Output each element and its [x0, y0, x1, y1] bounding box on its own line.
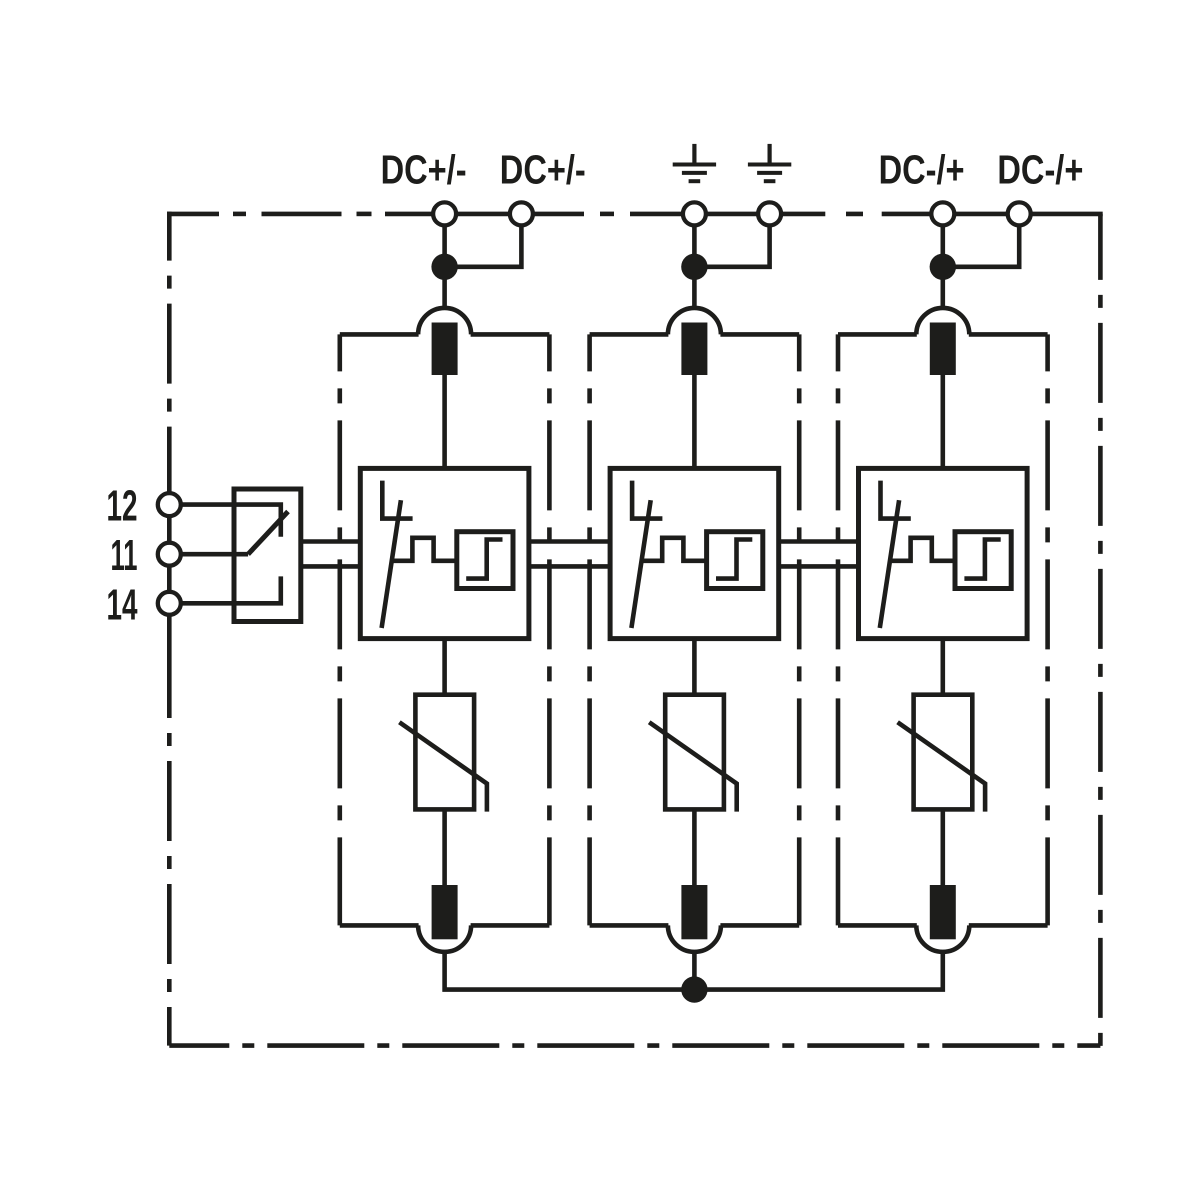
plug-in contact arc bottom, module 2	[668, 925, 721, 952]
trigger circuit box, module 2	[707, 532, 763, 589]
double signal lines module 2 to module 3	[779, 539, 859, 544]
plug-in contact blade (filled) bottom, module 1	[432, 885, 458, 939]
enclosure border bottom edge (dash-dot)	[169, 1043, 1100, 1048]
spark-gap with thermal disconnector symbol, module 1	[382, 481, 412, 519]
plug-in contact arc bottom, module 1	[418, 925, 471, 952]
junction node bottom bus	[681, 976, 707, 1002]
spark-gap with thermal disconnector symbol, module 2	[632, 481, 662, 519]
junction node module 3 top	[930, 254, 956, 280]
wire terminal 2b down to junction	[692, 214, 769, 267]
plug-in contact arc top, module 1	[418, 308, 471, 335]
svg-text:DC+/-: DC+/-	[381, 146, 467, 192]
zig-zag link to trigger box, module 1	[392, 538, 457, 561]
wire bottom contact to common bus module 2	[692, 950, 697, 990]
terminal 1b	[510, 202, 533, 225]
terminal 1a	[433, 202, 456, 225]
wire contact to SPD box module 2	[692, 375, 697, 466]
wire SPD box to varistor module 3	[940, 639, 945, 695]
plug-in contact blade (filled) bottom, module 2	[681, 885, 707, 939]
zig-zag link to trigger box, module 2	[642, 538, 707, 561]
wire terminal 2a down to top plug contact	[692, 214, 697, 310]
terminal 2a	[683, 202, 706, 225]
wire terminal 1b down to junction	[443, 214, 522, 267]
SPD unit box F3	[859, 468, 1028, 638]
varistor R1	[415, 695, 474, 810]
svg-text:DC-/+: DC-/+	[879, 146, 965, 192]
plug-in contact blade (filled) top, module 1	[432, 323, 458, 376]
wire terminal 3b down to junction	[941, 214, 1019, 267]
zig-zag link to trigger box, module 3	[890, 538, 955, 561]
plug-in contact blade (filled) top, module 3	[930, 323, 956, 376]
changeover switch blade	[248, 512, 288, 555]
svg-text:DC+/-: DC+/-	[500, 146, 586, 192]
svg-text:14: 14	[107, 580, 138, 629]
step (switching) symbol inside trigger box, module 2	[716, 540, 752, 579]
varistor R2	[665, 695, 724, 810]
trigger circuit box, module 1	[457, 532, 513, 589]
plug-in contact blade (filled) top, module 2	[681, 323, 707, 376]
double signal lines contact box to module 1	[301, 539, 361, 544]
terminal 12	[158, 493, 181, 516]
enclosure border top edge (dash-dot)	[167, 212, 219, 217]
wire terminal 3a down to top plug contact	[940, 214, 945, 310]
remote signalling changeover contact box	[234, 489, 301, 622]
enclosure border right edge (dash-dot)	[1098, 214, 1103, 1048]
terminal 3a	[931, 202, 954, 225]
trigger circuit box, module 3	[955, 532, 1011, 589]
plug-in contact blade (filled) bottom, module 3	[930, 885, 956, 939]
svg-text:11: 11	[111, 531, 138, 580]
step (switching) symbol inside trigger box, module 1	[466, 540, 502, 579]
wire terminal 12 into contact box + stationary throw	[169, 505, 280, 537]
junction node module 2 top	[681, 254, 707, 280]
spark-gap with thermal disconnector symbol, module 3	[881, 481, 911, 519]
wire varistor to bottom contact module 3	[940, 809, 945, 885]
SPD unit box F2	[610, 468, 779, 638]
plug-in contact arc top, module 2	[668, 308, 721, 335]
terminal 2b	[758, 202, 781, 225]
module 3 dashed outline	[836, 334, 841, 925]
wire varistor to bottom contact module 1	[442, 809, 447, 885]
wire terminal 11 (common) into contact box	[169, 552, 248, 557]
earth/ground symbol at x=694.4	[692, 144, 696, 165]
varistor R3	[914, 695, 973, 810]
plug-in contact arc bottom, module 3	[916, 925, 969, 952]
wire SPD box to varistor module 2	[692, 639, 697, 695]
wire terminal 14 into contact box + stationary throw	[169, 576, 280, 603]
common bottom bus wire	[445, 950, 943, 990]
terminal 3b	[1008, 202, 1031, 225]
junction node module 1 top	[431, 254, 457, 280]
terminal 11	[158, 543, 181, 566]
wire varistor to bottom contact module 2	[692, 809, 697, 885]
earth/ground symbol at x=769.6	[767, 144, 771, 165]
step (switching) symbol inside trigger box, module 3	[964, 540, 1000, 579]
double signal lines module 1 to module 2	[529, 539, 610, 544]
svg-text:12: 12	[107, 482, 138, 531]
module 2 dashed outline	[587, 334, 592, 925]
terminal 14	[158, 592, 181, 615]
svg-text:DC-/+: DC-/+	[997, 146, 1083, 192]
module 1 dashed outline	[337, 334, 342, 925]
wire contact to SPD box module 1	[442, 375, 447, 466]
wire contact to SPD box module 3	[940, 375, 945, 466]
wire SPD box to varistor module 1	[442, 639, 447, 695]
SPD unit box F1	[360, 468, 529, 638]
wire terminal 1a down to top plug contact	[442, 214, 447, 310]
plug-in contact arc top, module 3	[916, 308, 969, 335]
enclosure border left edge (dash-dot)	[167, 212, 172, 478]
